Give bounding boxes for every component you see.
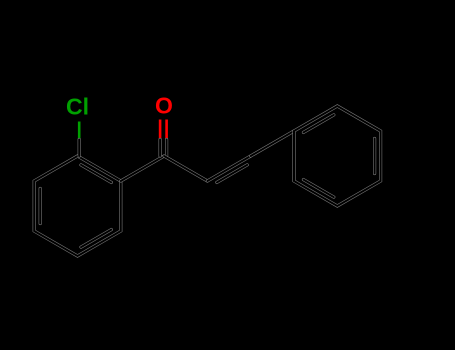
C-Cl bond (green half + black half)	[78, 122, 81, 157]
C=O double bond (red halves + black halves)	[160, 120, 167, 157]
right benzene ring outline bonds	[294, 106, 381, 206]
bond C-beta to right ring ipso	[251, 131, 294, 156]
bond carbonyl C to C-alpha	[164, 156, 207, 181]
right ring inner double bond V5-V6	[304, 180, 334, 198]
right ring inner double bond V3-V4	[373, 139, 376, 174]
vinyl C=C second line	[217, 165, 247, 183]
svg-text:Cl: Cl	[66, 94, 89, 120]
left ring inner double bond A-B	[81, 165, 111, 183]
left ring inner double bond C5-C4	[81, 230, 111, 248]
svg-text:O: O	[155, 93, 173, 119]
bond ring B to carbonyl C	[121, 156, 164, 181]
left ring inner double bond C3-C2	[39, 189, 42, 224]
left benzene ring outline bonds	[34, 156, 121, 256]
vinyl C=C main line	[207, 156, 250, 181]
right ring inner double bond I-V2	[304, 115, 334, 132]
